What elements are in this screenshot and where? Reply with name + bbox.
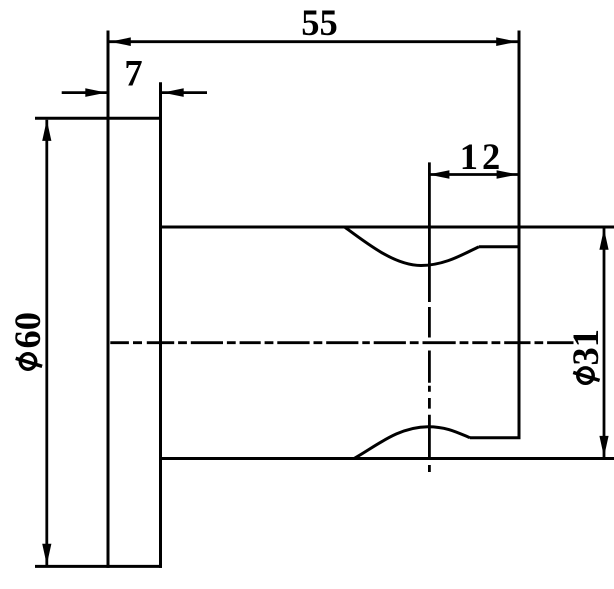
svg-text:55: 55 [301, 2, 338, 43]
svg-text:31: 31 [565, 329, 606, 366]
svg-text:7: 7 [124, 53, 142, 94]
svg-text:12: 12 [460, 136, 505, 177]
svg-text:60: 60 [7, 312, 48, 349]
